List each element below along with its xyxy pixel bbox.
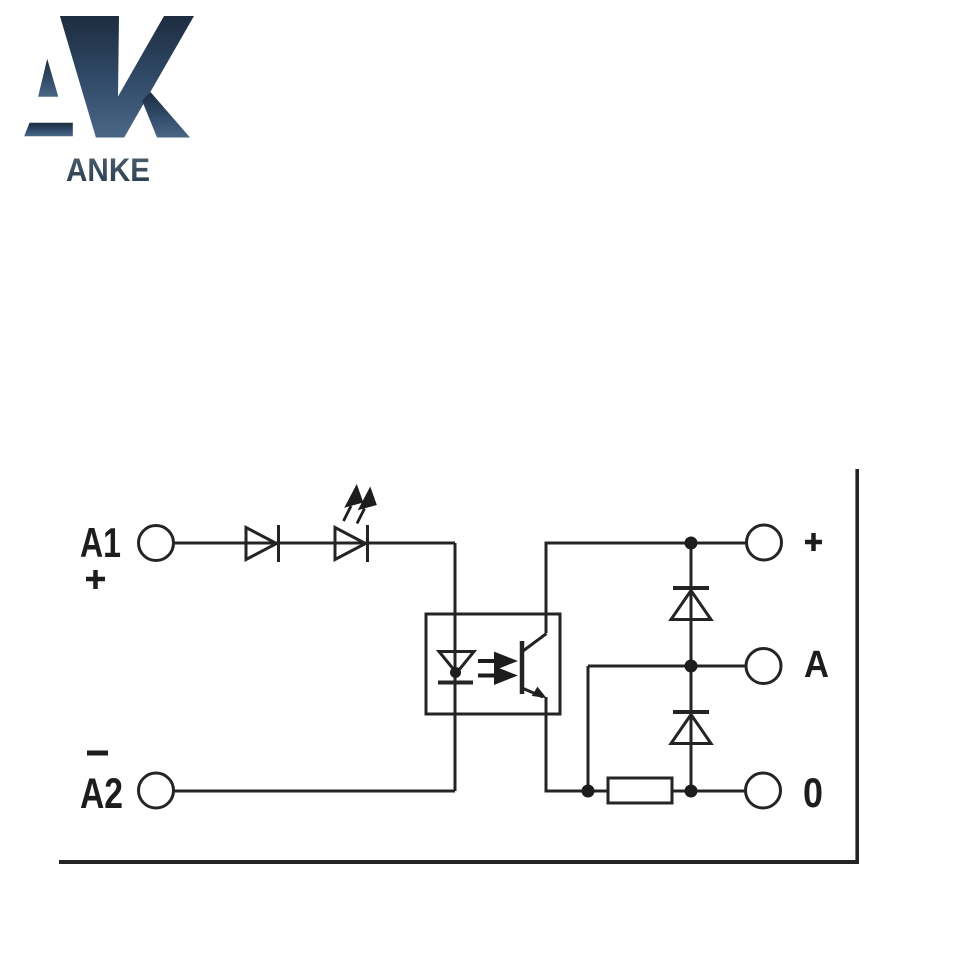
terminal A1: [139, 526, 174, 561]
wire A2 horizontal: [174, 790, 455, 793]
svg-text:A1: A1: [80, 519, 121, 566]
LED arrows: [344, 488, 376, 524]
wire emitter down to 0 row: [545, 697, 548, 793]
diode V4: [671, 712, 711, 744]
svg-text:A: A: [804, 644, 829, 686]
terminal 0: [746, 773, 781, 808]
LED V2: [335, 525, 368, 562]
right border: [855, 469, 859, 864]
junction dot at A row: [685, 660, 698, 673]
phototransistor Q1: [522, 634, 547, 698]
terminal A2: [139, 773, 174, 808]
bottom border: [59, 860, 859, 864]
svg-text:A2: A2: [80, 770, 123, 818]
wire top row to + terminal: [545, 542, 747, 545]
resistor R1: [608, 778, 672, 803]
wire bottom row: [545, 790, 747, 793]
terminal +: [747, 525, 782, 560]
label + (A1 polarity): [86, 570, 105, 589]
diode V3: [671, 588, 711, 620]
junction dot at 0 row: [685, 785, 698, 798]
wire A1 horizontal: [174, 542, 455, 545]
junction dot bottom-left node: [582, 785, 595, 798]
optocoupler U1 box: [426, 614, 560, 714]
wire diode chain vertical: [690, 543, 693, 791]
junction dot at + row: [685, 537, 698, 550]
optocoupler light arrows: [478, 655, 513, 683]
svg-text:ANKE: ANKE: [66, 152, 150, 188]
optocoupler LED: [438, 652, 474, 683]
wire collector to + row: [545, 542, 548, 634]
label minus (A2 polarity): [87, 751, 108, 756]
wire A row horizontal: [588, 665, 746, 668]
label + (terminal): [805, 533, 822, 551]
logo AK monogram: [24, 16, 194, 138]
svg-text:0: 0: [803, 769, 823, 816]
diode V1: [246, 525, 279, 562]
wire from A1 down through optocoupler to A2 row: [454, 543, 457, 791]
terminal A: [746, 649, 781, 684]
wire A row to bottom node vertical: [587, 666, 590, 791]
